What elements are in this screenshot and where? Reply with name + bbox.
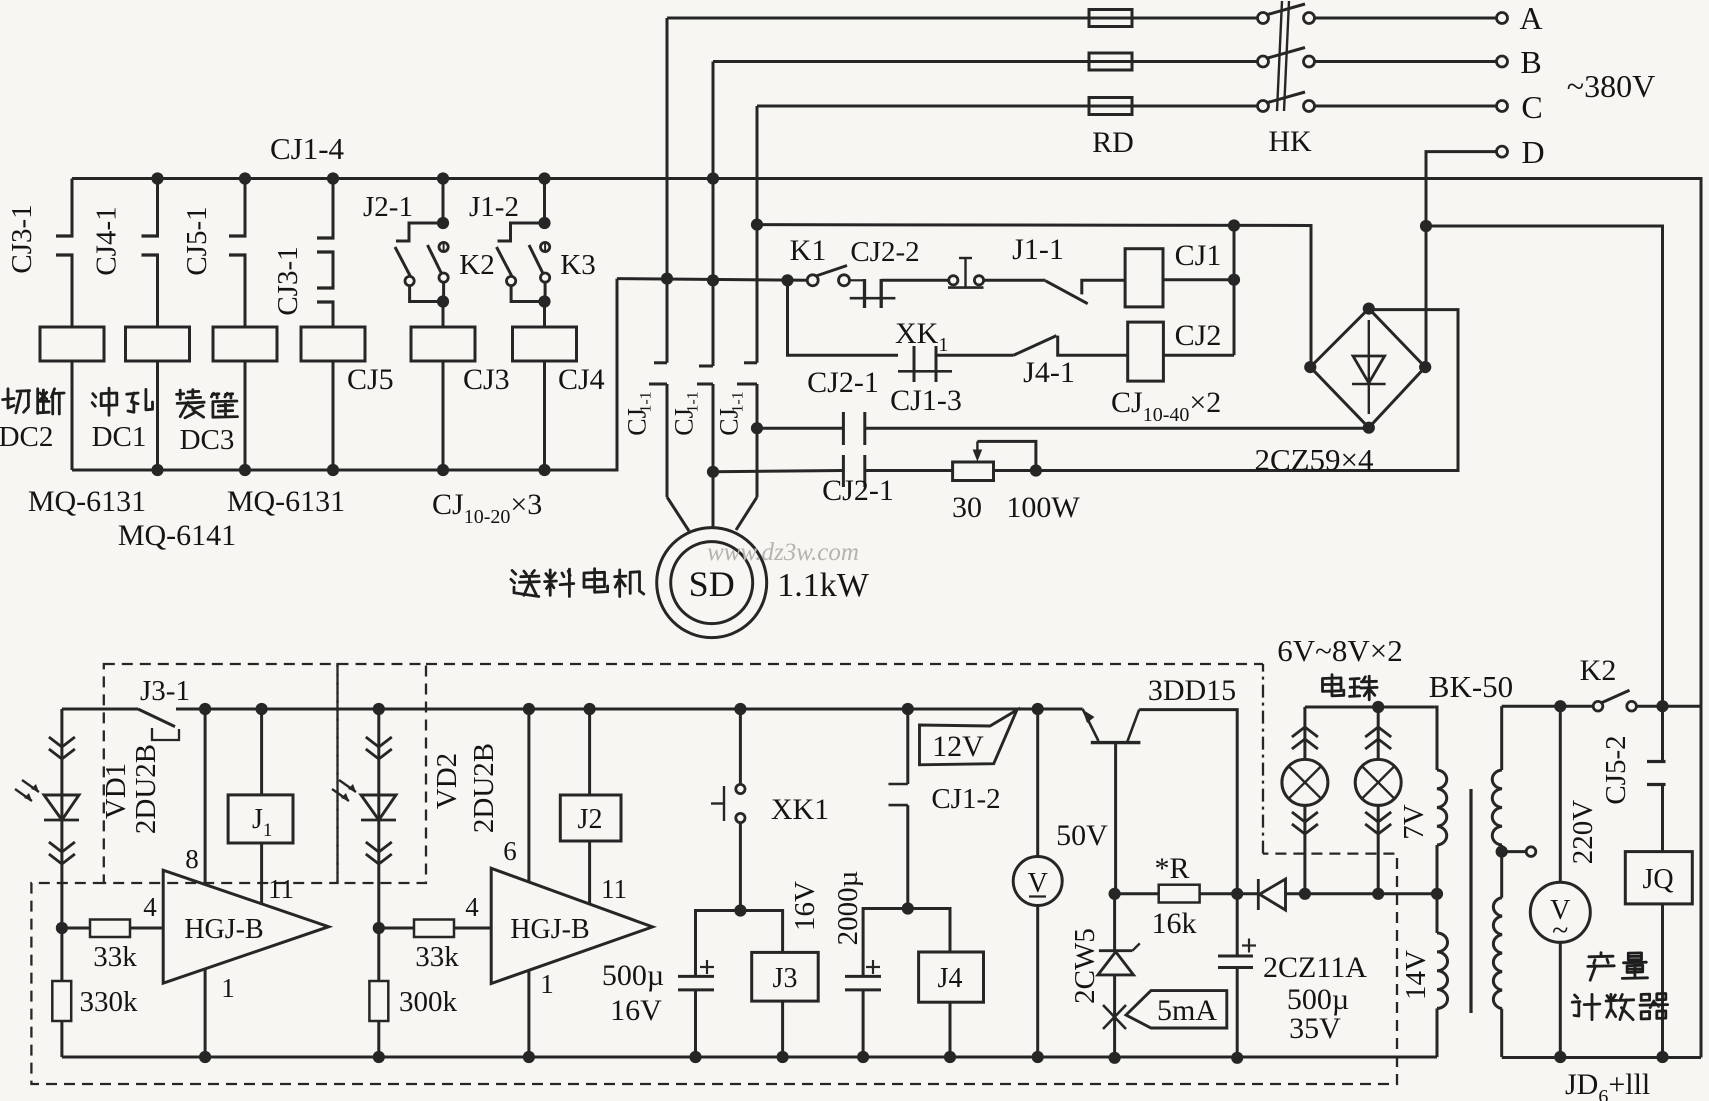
dash-dot lamp box edge — [1262, 664, 1264, 854]
contact CJ1-2 — [906, 709, 909, 784]
node CJ1-2 bottom — [902, 902, 914, 914]
node top of link — [1228, 219, 1240, 231]
contact CJ4-1 — [156, 179, 159, 237]
node cap500 rail — [689, 1051, 701, 1063]
dashed box VD2 — [338, 664, 427, 883]
capacitor 2CZ11A 500u 35V — [1236, 894, 1239, 956]
node collector row — [1231, 888, 1243, 900]
svg-text:CJ1-3: CJ1-3 — [890, 384, 962, 417]
switch K1 — [807, 275, 818, 286]
relay coil DC2 — [40, 327, 104, 361]
wire pin 1 — [204, 969, 207, 1057]
svg-text:J1-2: J1-2 — [469, 191, 519, 223]
contact J4-1 blade — [1014, 336, 1057, 356]
svg-text:A: A — [1519, 0, 1542, 36]
wire phase C drop — [756, 106, 759, 225]
resistor 300k — [377, 928, 380, 981]
wire VD1 branch — [60, 709, 63, 928]
svg-text:330k: 330k — [80, 986, 139, 1018]
node VD2 bottom — [373, 922, 385, 934]
wire CJ1-4 top bus — [72, 179, 1701, 1058]
node phase C tap — [751, 219, 763, 231]
wire rail mid — [176, 708, 1083, 711]
node 300k rail — [373, 1051, 385, 1063]
svg-text:K2: K2 — [1580, 654, 1617, 687]
wire motor leads — [667, 497, 689, 531]
node K1 branch — [781, 274, 793, 286]
svg-text:1: 1 — [221, 973, 235, 1003]
wire motor row y=280 — [617, 279, 808, 281]
node motor B — [707, 274, 719, 286]
fuse RD phase A — [1089, 10, 1132, 27]
node lamp2 bottom — [1372, 888, 1384, 900]
label dianzhu — [1323, 675, 1344, 696]
svg-text:35V: 35V — [1289, 1012, 1341, 1045]
wire row1 left — [757, 427, 843, 430]
svg-text:CJ5: CJ5 — [347, 363, 394, 396]
wire D branch to K2 feeder — [1426, 226, 1663, 706]
relay coil CJ2 — [1128, 322, 1164, 381]
contact J1-1 blade — [1046, 281, 1088, 304]
rheostat 30 100W — [953, 462, 994, 481]
transformer secondary — [1492, 770, 1502, 845]
contact J1-2 — [498, 223, 545, 241]
svg-text:4: 4 — [465, 892, 479, 922]
svg-text:6: 6 — [503, 836, 517, 866]
wire CJ1 to node — [1163, 278, 1234, 281]
svg-text:VD1: VD1 — [100, 763, 132, 819]
motor SD — [657, 528, 767, 638]
svg-text:K2: K2 — [459, 249, 494, 281]
svg-text:MQ-6131: MQ-6131 — [227, 485, 345, 518]
node pin1 rail — [199, 1051, 211, 1063]
svg-text:HGJ-B: HGJ-B — [184, 914, 263, 945]
svg-text:16k: 16k — [1152, 907, 1197, 940]
svg-text:16V: 16V — [610, 994, 662, 1027]
capacitor 500u 16V — [678, 975, 714, 978]
svg-text:12V: 12V — [932, 730, 984, 763]
node meter220 rail — [1554, 1051, 1566, 1063]
svg-text:2CZ59×4: 2CZ59×4 — [1254, 442, 1374, 477]
svg-text:K3: K3 — [560, 249, 595, 281]
wire K1 branch down — [788, 280, 899, 355]
svg-text:*R: *R — [1154, 852, 1189, 885]
svg-text:J2: J2 — [578, 804, 603, 835]
dashed box J3-1 VD1 — [31, 664, 1397, 1084]
contact CJ5-1 — [244, 179, 247, 237]
contact CJ3-1 upper — [332, 179, 335, 239]
wire phase C row — [757, 225, 1311, 368]
wire phase A drop — [666, 18, 669, 279]
svg-text:CJ4-1: CJ4-1 — [91, 206, 123, 275]
svg-text:K1: K1 — [790, 234, 827, 267]
wire row2 to pot — [865, 469, 953, 472]
node col4 — [327, 172, 339, 184]
node col3 — [239, 172, 251, 184]
node CJ1-2 top — [902, 703, 914, 715]
wire pin 1 ch2 — [527, 970, 530, 1057]
svg-text:5mA: 5mA — [1157, 994, 1217, 1027]
flag 12V — [920, 710, 1017, 765]
wire phase A — [667, 17, 1257, 20]
voltmeter 220V — [1559, 706, 1562, 882]
wire row2 to bridge top link — [994, 310, 1459, 471]
wire to cap500 — [696, 911, 741, 977]
svg-text:B: B — [1520, 44, 1541, 80]
label songliao dianji — [511, 571, 540, 597]
fuse RD phase C — [1089, 98, 1132, 115]
svg-text:6V~8V×2: 6V~8V×2 — [1277, 633, 1403, 668]
terminal C — [1497, 101, 1508, 112]
svg-text:MQ-6131: MQ-6131 — [28, 485, 146, 518]
wire col6 — [543, 179, 546, 224]
svg-text:VD2: VD2 — [431, 753, 463, 809]
pushbutton XK1 — [739, 709, 742, 784]
svg-text:100W: 100W — [1006, 491, 1080, 524]
svg-text:2DU2B: 2DU2B — [468, 743, 500, 833]
svg-text:50V: 50V — [1056, 819, 1108, 852]
wire row1 to bridge — [865, 427, 1369, 430]
relay coil CJ4 — [543, 302, 546, 328]
svg-text:J4: J4 — [938, 963, 963, 994]
node D branch — [1420, 220, 1432, 232]
svg-text:30: 30 — [952, 491, 982, 524]
rectifier bridge 2CZ59x4 — [1310, 309, 1425, 428]
relay coil DC1 — [126, 327, 190, 361]
svg-text:CJ4: CJ4 — [558, 363, 605, 396]
svg-text:1.1kW: 1.1kW — [777, 567, 870, 604]
relay coil DC3 — [213, 327, 277, 361]
svg-text:J3: J3 — [773, 963, 798, 994]
svg-text:CJ2-1: CJ2-1 — [822, 474, 894, 507]
photodiode VD2 — [366, 737, 392, 747]
wire pin 6 — [527, 709, 530, 882]
node col5 top — [437, 172, 449, 184]
node K2 out — [1656, 700, 1668, 712]
node pin6 top — [523, 703, 535, 715]
svg-text:7V: 7V — [1398, 804, 1430, 840]
svg-text:16V: 16V — [789, 881, 821, 931]
svg-text:1: 1 — [540, 969, 554, 999]
node J3 rail — [777, 1051, 789, 1063]
node J4 rail — [944, 1051, 956, 1063]
svg-text:JD6+lll: JD6+lll — [1565, 1068, 1650, 1101]
svg-text:11: 11 — [601, 874, 627, 904]
wire left bank bottom bus — [72, 279, 617, 470]
terminal B — [1497, 56, 1508, 67]
relay coil CJ5 — [301, 327, 365, 361]
transistor 3DD15 — [1091, 741, 1141, 744]
svg-text:BK-50: BK-50 — [1429, 669, 1513, 704]
contact CJ3-1 lower — [332, 252, 335, 288]
wire pin 8 — [204, 709, 207, 885]
svg-text:DC1: DC1 — [92, 421, 147, 453]
svg-text:11: 11 — [268, 874, 294, 904]
relay JQ — [1625, 852, 1692, 904]
svg-text:CJ3: CJ3 — [463, 363, 510, 396]
svg-text:CJ5-1: CJ5-1 — [181, 206, 213, 275]
terminal D — [1497, 146, 1508, 157]
relay J2 — [588, 709, 591, 795]
contact CJ1-1 c — [756, 225, 759, 363]
svg-text:~: ~ — [1552, 914, 1568, 947]
svg-text:CJ1-2: CJ1-2 — [931, 783, 1000, 815]
svg-text:www.dz3w.com: www.dz3w.com — [707, 539, 859, 566]
pushbutton J1-1 — [949, 276, 958, 285]
wire phase B drop — [712, 62, 715, 282]
svg-text:RD: RD — [1092, 126, 1134, 159]
svg-text:CJ1-4: CJ1-4 — [270, 131, 345, 166]
center tap — [1496, 846, 1508, 858]
wire VD2 branch — [377, 709, 380, 928]
contact CJ3-1 — [71, 179, 74, 237]
svg-text:4: 4 — [143, 892, 157, 922]
photodiode VD1 — [49, 737, 75, 747]
dashed enclosure main — [31, 854, 1397, 1084]
svg-text:33k: 33k — [93, 941, 137, 973]
svg-text:CJ1: CJ1 — [1175, 239, 1222, 272]
contact J2-1 — [396, 223, 443, 241]
node pin8 — [199, 703, 211, 715]
relay coil CJ3 — [442, 302, 445, 328]
contact CJ2-1 row2 — [842, 455, 845, 487]
node motor A — [661, 273, 673, 285]
voltmeter 50V — [1036, 709, 1039, 857]
label chanliang jishuqi — [1588, 953, 1614, 981]
contact CJ5-2 — [1661, 706, 1664, 761]
svg-text:CJ3-1: CJ3-1 — [6, 204, 38, 273]
contact J3-1 blade — [138, 709, 175, 727]
node XK1 bottom — [734, 904, 746, 916]
wire base — [1114, 743, 1117, 894]
label qieduan DC2 — [3, 389, 30, 413]
switch K3 — [541, 242, 550, 251]
contact CJ1-1 a — [666, 279, 669, 363]
secondary top rail — [1502, 705, 1593, 708]
node XK1 top — [734, 703, 746, 715]
contact CJ2-1 row1 — [842, 412, 845, 445]
svg-text:CJ3-1: CJ3-1 — [272, 246, 304, 315]
wire CJ2 to link — [1163, 354, 1234, 357]
svg-text:J2-1: J2-1 — [363, 191, 413, 223]
lamp 1 — [1303, 707, 1306, 760]
fuse RD phase B — [1089, 53, 1132, 70]
wire bottom top rail — [62, 708, 138, 711]
node VD2 top — [373, 703, 385, 715]
capacitor 2000u — [845, 975, 881, 978]
node pin1 ch2 rail — [523, 1051, 535, 1063]
svg-text:500µ: 500µ — [602, 959, 664, 992]
zener 2CW5 — [1113, 894, 1116, 951]
svg-text:220V: 220V — [1567, 800, 1599, 865]
svg-text:MQ-6141: MQ-6141 — [118, 519, 236, 552]
contact CJ2-2 — [850, 279, 865, 281]
wire button to blade — [984, 279, 1046, 282]
svg-text:3DD15: 3DD15 — [1148, 674, 1236, 707]
node lamp1 bottom — [1299, 888, 1311, 900]
node pin11 top — [256, 703, 268, 715]
wire phase C — [757, 105, 1257, 108]
svg-text:DC3: DC3 — [180, 424, 235, 456]
svg-text:CJ2-2: CJ2-2 — [850, 236, 919, 268]
wire 2000u link — [863, 909, 950, 977]
svg-text:CJ2: CJ2 — [1175, 319, 1222, 352]
resistor *R 16k — [1159, 885, 1200, 903]
svg-text:J1-1: J1-1 — [1012, 233, 1064, 266]
wire R row — [1115, 892, 1159, 895]
relay J1 — [260, 709, 263, 795]
wire col5 — [442, 179, 445, 224]
transformer primary — [1437, 770, 1447, 845]
lamp rail — [1305, 706, 1435, 709]
svg-text:1-1: 1-1 — [638, 391, 655, 412]
svg-text:D: D — [1521, 134, 1544, 170]
node JQ rail — [1656, 1051, 1668, 1063]
svg-text:J4-1: J4-1 — [1023, 356, 1075, 389]
node row1 tap — [751, 422, 763, 434]
label zhuangkuang DC3 — [177, 390, 205, 418]
contact CJ1-1 b — [712, 281, 715, 366]
svg-text:V: V — [1028, 868, 1048, 899]
node row2 tap — [707, 466, 719, 478]
main bottom rail — [62, 1056, 1437, 1059]
svg-text:14V: 14V — [1400, 950, 1432, 1000]
node col6 top — [538, 172, 550, 184]
svg-text:HGJ-B: HGJ-B — [510, 914, 589, 945]
node VD1 bottom — [56, 922, 68, 934]
vertical link x=1234 — [1233, 226, 1236, 356]
node meter50 rail — [1032, 1051, 1044, 1063]
svg-text:CJ2-1: CJ2-1 — [807, 366, 879, 399]
relay J4 — [919, 952, 984, 1002]
svg-text:~380V: ~380V — [1567, 68, 1655, 104]
resistor 33k ch2 — [379, 927, 414, 930]
wire XK1 to J4-1 — [936, 354, 1014, 357]
wire CJ2-2 to button — [881, 279, 949, 282]
node J2 top — [584, 703, 596, 715]
secondary bottom rail — [1502, 1056, 1701, 1059]
svg-text:2DU2B: 2DU2B — [130, 744, 162, 834]
svg-text:DC2: DC2 — [0, 421, 53, 453]
svg-text:2CZ11A: 2CZ11A — [1263, 951, 1367, 984]
terminal A — [1497, 13, 1508, 24]
svg-text:SD: SD — [689, 564, 735, 604]
label chongkong DC1 — [92, 388, 117, 415]
transformer core — [1469, 789, 1472, 1013]
svg-text:JQ: JQ — [1642, 864, 1673, 895]
opamp HGJ-B 1 — [163, 870, 328, 983]
switch K2 — [439, 242, 448, 251]
switch HK — [1258, 13, 1269, 24]
svg-text:300k: 300k — [399, 986, 458, 1018]
svg-text:J3-1: J3-1 — [140, 675, 190, 707]
relay J3 — [752, 952, 819, 1001]
node col2 — [151, 172, 163, 184]
wire row2 left — [713, 471, 843, 472]
svg-text:CJ5-2: CJ5-2 — [1600, 735, 1632, 804]
relay coil CJ1 — [1125, 249, 1163, 307]
node zener rail — [1109, 1052, 1121, 1064]
svg-text:8: 8 — [185, 844, 199, 874]
svg-text:C: C — [1521, 89, 1542, 125]
svg-text:2000µ: 2000µ — [832, 871, 864, 946]
svg-text:1-1: 1-1 — [685, 391, 702, 412]
svg-text:1-1: 1-1 — [730, 391, 747, 412]
svg-text:2CW5: 2CW5 — [1069, 928, 1101, 1004]
wire phase B — [713, 60, 1257, 63]
switch K2 — [1593, 701, 1603, 711]
svg-text:XK1: XK1 — [771, 793, 829, 826]
resistor 330k — [60, 928, 63, 981]
node 2000u rail — [857, 1051, 869, 1063]
wire terminal D to bridge right vertex — [1426, 152, 1496, 368]
diode to lamps — [1257, 879, 1260, 910]
wire to J3 — [740, 911, 782, 953]
contact XK1/CJ1-3 — [913, 346, 916, 382]
resistor 33k ch1 — [62, 927, 90, 930]
lamp 2 — [1377, 707, 1380, 760]
node meter50 top — [1032, 703, 1044, 715]
svg-text:HK: HK — [1268, 125, 1312, 158]
indicator 5mA — [1103, 1005, 1126, 1029]
svg-text:33k: 33k — [415, 941, 459, 973]
opamp HGJ-B 2 — [491, 868, 652, 983]
